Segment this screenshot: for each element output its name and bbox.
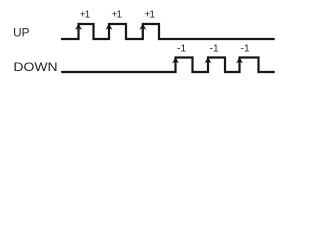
- svg-text:-1: -1: [177, 43, 187, 54]
- arrowhead on UP rising edge 1: [75, 24, 82, 30]
- UP waveform trace (3 pulses then low): [61, 24, 275, 39]
- svg-text:-1: -1: [241, 43, 251, 54]
- svg-text:-1: -1: [210, 43, 220, 54]
- svg-text:UP: UP: [13, 27, 30, 40]
- arrowhead on DOWN rising edge 3: [236, 57, 243, 63]
- svg-text:+1: +1: [144, 9, 155, 20]
- svg-text:+1: +1: [111, 9, 122, 20]
- svg-text:DOWN: DOWN: [13, 60, 57, 74]
- arrowhead on DOWN rising edge 1: [172, 57, 179, 63]
- DOWN waveform trace (low then 3 pulses then low): [61, 58, 275, 73]
- arrowhead on DOWN rising edge 2: [205, 57, 212, 63]
- arrowhead on UP rising edge 3: [139, 24, 146, 30]
- arrowhead on UP rising edge 2: [106, 24, 113, 30]
- svg-text:+1: +1: [80, 9, 91, 20]
